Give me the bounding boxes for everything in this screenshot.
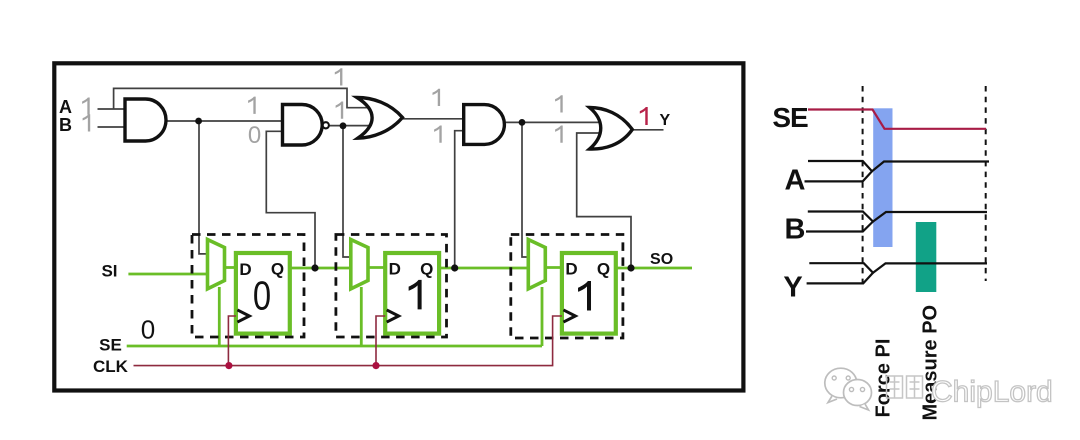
svg-text:A: A	[59, 97, 72, 117]
svg-text:Q: Q	[597, 260, 610, 279]
svg-text:Y: Y	[783, 272, 802, 304]
svg-text:Q: Q	[271, 260, 284, 279]
svg-text:SE: SE	[772, 102, 808, 133]
svg-text:D: D	[239, 260, 251, 279]
svg-text:0: 0	[248, 122, 261, 149]
svg-text:B: B	[59, 115, 72, 135]
svg-text:Y: Y	[659, 112, 670, 129]
svg-text:D: D	[389, 260, 401, 279]
svg-text:Force PI: Force PI	[873, 339, 895, 418]
svg-text:SO: SO	[650, 251, 673, 268]
svg-text:CLK: CLK	[93, 357, 129, 376]
svg-text:B: B	[785, 214, 806, 246]
svg-text:0: 0	[141, 315, 155, 345]
svg-text:SI: SI	[101, 261, 117, 280]
svg-text:SE: SE	[99, 336, 122, 355]
svg-text:0: 0	[253, 272, 271, 318]
svg-text:Q: Q	[420, 260, 433, 279]
svg-text:ChipLord: ChipLord	[931, 376, 1053, 409]
svg-text:D: D	[565, 260, 577, 279]
svg-text:A: A	[785, 165, 806, 197]
